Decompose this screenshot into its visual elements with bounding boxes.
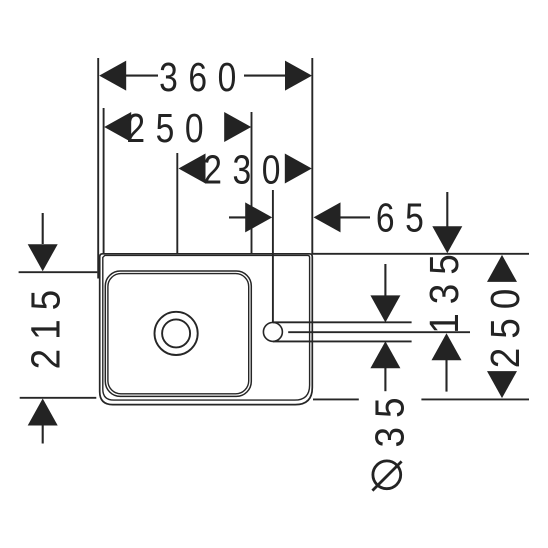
dim 215 tail bottom	[42, 426, 44, 444]
bowl outer edge	[105, 271, 251, 396]
dim text 215 rotated	[24, 281, 69, 370]
arrowhead 250 right	[224, 112, 251, 142]
svg-text:230: 230	[203, 146, 291, 192]
svg-text:250: 250	[126, 105, 214, 151]
extension line right outer (360/230)	[311, 58, 313, 254]
dim text diameter 35 rotated	[368, 388, 413, 447]
svg-text:250: 250	[483, 280, 528, 369]
tick bowl top left (215)	[19, 271, 98, 273]
tap hole bottom tangent line	[273, 340, 412, 342]
arrowhead 135 top pointing down	[432, 226, 462, 253]
dim text 65	[376, 194, 435, 240]
svg-text:65: 65	[376, 194, 435, 240]
dim diameter35 tail bottom	[384, 368, 386, 392]
arrowhead 360 right	[285, 61, 312, 91]
svg-text:215: 215	[24, 281, 69, 370]
arrowhead 230 right	[285, 154, 312, 184]
svg-text:35: 35	[368, 388, 413, 447]
arrowhead right 250 bottom pointing down	[487, 371, 517, 398]
dim 65 tail right	[339, 216, 370, 218]
arrowhead 65 left pointing right	[245, 202, 272, 232]
tap hole circle	[263, 322, 282, 341]
arrowhead 250 left	[104, 112, 131, 142]
arrowhead diameter35 bottom pointing up	[370, 341, 400, 368]
dim 215 tail top	[42, 213, 44, 244]
arrowhead diameter35 top pointing down	[370, 295, 400, 322]
extension line basin top edge to right	[312, 253, 529, 255]
drain inner circle	[162, 319, 190, 347]
dim text 230	[203, 146, 291, 192]
arrowhead 65 right pointing left	[314, 202, 341, 232]
extension line drain center (230)	[176, 153, 178, 253]
diameter symbol of dim 35	[372, 461, 401, 491]
dim text 360	[159, 54, 247, 100]
extension line bowl left (250)	[103, 108, 105, 254]
dim text 250 top	[126, 105, 214, 151]
dim 65 tail left	[229, 216, 247, 218]
dim text 250 right rotated	[483, 280, 528, 369]
svg-text:360: 360	[159, 54, 247, 100]
arrowhead 215 bottom pointing up	[28, 399, 58, 426]
drain outer circle	[155, 312, 198, 355]
basin outer outline	[100, 254, 313, 405]
arrowhead 135 bottom pointing up	[432, 333, 462, 360]
bowl inner edge	[108, 274, 249, 394]
extension line basin bottom edge right segment b	[421, 398, 529, 400]
extension line tap center vertical (65)	[272, 190, 274, 322]
basin rim inner line	[103, 255, 310, 400]
extension line left outer (360)	[97, 58, 99, 279]
arrowhead 360 left	[99, 61, 126, 91]
tick bowl bottom left (215)	[20, 397, 97, 399]
dim diameter35 tail top	[384, 264, 386, 297]
extension line bowl right (250)	[251, 112, 253, 254]
dim text 135 rotated	[422, 245, 467, 334]
svg-text:135: 135	[422, 245, 467, 334]
dim 135 tail top	[446, 192, 448, 228]
arrowhead 215 top pointing down	[28, 244, 58, 271]
arrowhead right 250 top pointing up	[487, 255, 517, 282]
extension line basin bottom edge right segment a	[313, 398, 359, 400]
arrowhead 230 left	[179, 154, 206, 184]
dim 360 line right	[244, 75, 287, 77]
tap hole top tangent line	[273, 321, 412, 323]
dim 135 tail bottom	[445, 360, 447, 392]
dim 360 line left	[125, 75, 158, 77]
tap center horizontal line	[288, 331, 470, 333]
